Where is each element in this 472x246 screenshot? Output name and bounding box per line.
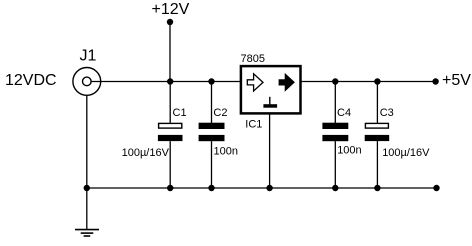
junction output net / C4 xyxy=(332,78,338,84)
junction rail / J1 ground xyxy=(84,185,90,191)
svg-text:C2: C2 xyxy=(213,107,227,119)
junction output net / C3 xyxy=(374,78,380,84)
svg-text:100n: 100n xyxy=(214,145,238,157)
wire J1 sleeve down to ground rail xyxy=(86,96,88,188)
capacitor C4 ceramic xyxy=(322,82,348,189)
svg-text:+5V: +5V xyxy=(442,72,471,89)
junction input net / C2 xyxy=(208,78,214,84)
svg-text:C1: C1 xyxy=(173,107,187,119)
IC1 ground pin symbol xyxy=(263,97,277,108)
junction rail / C2 xyxy=(208,185,214,191)
ground symbol xyxy=(75,230,99,236)
wire ground stub xyxy=(86,188,88,230)
svg-text:12VDC: 12VDC xyxy=(5,72,57,89)
ground rail wire xyxy=(87,187,437,189)
capacitor C2 ceramic xyxy=(199,82,225,189)
junction rail / IC1 ground xyxy=(266,185,272,191)
IC1 input arrow (hollow) xyxy=(247,74,263,91)
wire J1 output to IC input xyxy=(92,81,241,83)
voltage regulator IC1 7805 body xyxy=(241,66,301,113)
svg-text:100n: 100n xyxy=(337,145,361,157)
junction rail / C3 xyxy=(374,185,380,191)
wire +12V terminal down to input net xyxy=(169,22,171,82)
svg-text:+12V: +12V xyxy=(152,1,190,18)
node +12V terminal xyxy=(167,19,173,25)
junction rail / C1 xyxy=(167,185,173,191)
junction input net / C1 xyxy=(167,78,173,84)
svg-text:J1: J1 xyxy=(80,48,97,65)
connector J1 xyxy=(73,68,101,96)
wire IC1 ground pin down to ground rail xyxy=(269,113,271,188)
svg-text:100µ/16V: 100µ/16V xyxy=(382,147,430,159)
svg-text:C4: C4 xyxy=(337,107,351,119)
node rail right terminal xyxy=(433,185,439,191)
svg-text:100µ/16V: 100µ/16V xyxy=(122,147,170,159)
junction rail / C4 xyxy=(332,185,338,191)
svg-text:C3: C3 xyxy=(380,107,394,119)
IC1 output arrow (solid) xyxy=(279,73,295,92)
capacitor C1 electrolytic xyxy=(158,82,183,189)
wire IC1 output to +5V terminal xyxy=(301,81,436,83)
node +5V terminal xyxy=(432,78,438,84)
svg-text:IC1: IC1 xyxy=(245,119,262,131)
svg-text:7805: 7805 xyxy=(241,53,265,65)
capacitor C3 electrolytic xyxy=(365,82,390,189)
